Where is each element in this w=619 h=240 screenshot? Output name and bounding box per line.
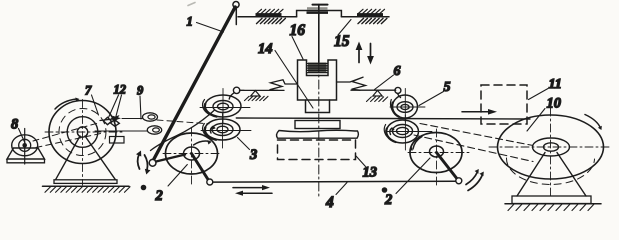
web line through roller nips	[236, 118, 530, 119]
svg-text:12: 12	[114, 83, 127, 97]
stand of pulley 7	[54, 136, 117, 183]
connecting bar 4	[213, 180, 456, 183]
middle right roller	[384, 115, 432, 150]
link rod pin to wheel hub	[156, 155, 185, 162]
right belt wheel 2	[408, 129, 470, 188]
leader for label 7	[92, 95, 99, 115]
left belt wheel 2	[163, 128, 222, 185]
pivot circle at top of rod 1	[233, 2, 239, 8]
svg-text:6: 6	[394, 64, 401, 79]
left spring 6	[270, 80, 298, 91]
drive wheel 10	[489, 108, 612, 199]
dot marker left	[141, 185, 147, 191]
right spring 6	[337, 77, 366, 90]
up-down stroke arrows near 15	[356, 42, 374, 65]
rod 1 (thick link)	[153, 7, 236, 162]
leader for label 11	[529, 89, 549, 100]
left fixed guide hatch band	[256, 9, 286, 23]
stand of wheel 10	[512, 153, 591, 204]
feed arrow near box 11	[462, 111, 489, 113]
svg-text:7: 7	[85, 84, 92, 98]
wavy slab	[277, 130, 359, 138]
travel arrows under bar 4	[233, 185, 272, 196]
svg-text:4: 4	[325, 194, 334, 211]
right fixed guide hatch band	[357, 9, 387, 23]
dashed tape line lower to wheel 10	[414, 135, 533, 162]
leader for left label 2	[168, 165, 187, 187]
svg-text:11: 11	[549, 77, 562, 92]
svg-text:2: 2	[384, 192, 392, 208]
pin above roller 5	[398, 94, 401, 98]
leader for right label 2	[396, 158, 430, 194]
ground under wheel stand	[505, 204, 601, 211]
press lower shoe 14	[306, 100, 330, 113]
svg-text:8: 8	[11, 117, 19, 133]
dashed tape line upper to wheel 10	[420, 124, 533, 146]
dot marker right	[382, 187, 388, 193]
faint smudge top left	[188, 3, 195, 6]
crank of right wheel 2	[437, 153, 459, 181]
crank of left wheel 2	[192, 154, 210, 182]
svg-text:10: 10	[547, 96, 562, 112]
leader for label 5	[419, 92, 444, 106]
bobbin mount 8	[7, 129, 45, 165]
svg-text:13: 13	[363, 165, 378, 181]
leader for label 8	[19, 129, 26, 144]
leader for label 16	[292, 37, 303, 60]
small box under cluster	[110, 137, 125, 144]
svg-text:9: 9	[137, 84, 144, 98]
rod 1 lower pin	[149, 159, 156, 166]
leader for label 4	[336, 183, 347, 195]
anchor stub under pivot	[235, 8, 237, 25]
guide curl lower	[147, 126, 161, 134]
table plate under press	[295, 121, 340, 129]
roller pair 3 bottom roller	[201, 114, 251, 149]
thread dashed path from bobbin over pulley	[33, 123, 100, 142]
belt shifter forks 12	[104, 117, 120, 126]
centre dash-dot axis	[318, 63, 320, 196]
press body 16 (cup)	[298, 60, 337, 100]
oscillation arrows near rod 1	[136, 151, 151, 175]
pin above roller 3	[233, 87, 239, 93]
thread dashed path to roller nip	[157, 120, 209, 124]
svg-text:3: 3	[249, 147, 257, 163]
leader for label 14 crossing press	[275, 51, 313, 109]
cluster link lines	[95, 130, 147, 132]
svg-text:14: 14	[258, 41, 273, 57]
roller pair 3 top roller	[200, 89, 250, 124]
crank pin left	[207, 179, 213, 185]
leader for label 15	[338, 20, 351, 36]
ground under pulley stand	[43, 186, 131, 192]
stack inside press cup	[308, 63, 328, 74]
leaders for label 12	[109, 95, 122, 120]
leader for label 9	[140, 96, 141, 119]
dashed box 13	[278, 140, 356, 160]
slide bar 15 raised plateau	[297, 11, 342, 17]
screw rod with T-cap over press	[307, 5, 329, 63]
svg-text:2: 2	[155, 188, 163, 204]
web curve into rollers 3	[151, 111, 215, 151]
leader for label 1	[197, 23, 224, 33]
left pivot support	[245, 91, 269, 101]
leader for label 3	[238, 138, 250, 150]
right lever pin	[395, 87, 401, 93]
cone pulley 7	[45, 98, 125, 186]
right pivot support	[367, 90, 388, 101]
roller 5 top	[390, 89, 425, 123]
svg-text:1: 1	[187, 15, 193, 29]
guide curl upper 9	[143, 113, 158, 121]
dashed box 11	[481, 85, 527, 124]
svg-text:5: 5	[444, 80, 451, 95]
slide bar 15 horizontal line	[238, 16, 389, 18]
leader for label 6	[375, 75, 394, 90]
rotation arrows right of wheel	[466, 169, 484, 191]
left lever line	[240, 89, 285, 91]
leader for label 13	[356, 156, 366, 167]
crank pin right	[456, 178, 462, 184]
thread direction arrow in cluster	[100, 119, 113, 121]
leader for label 10	[527, 109, 545, 132]
svg-text:15: 15	[334, 33, 350, 50]
right lever line	[351, 89, 396, 91]
